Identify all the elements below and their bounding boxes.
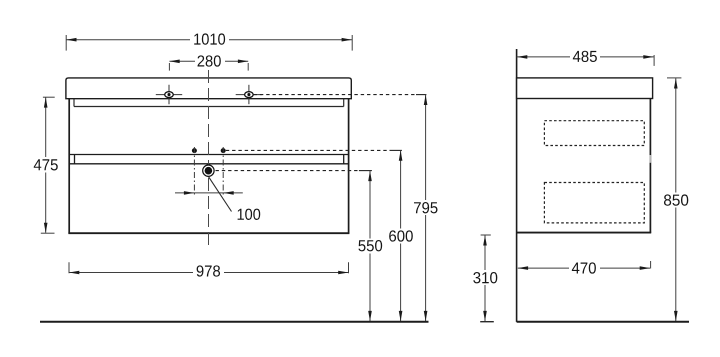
dimension 978 label <box>193 263 224 279</box>
dimension 310 label <box>472 270 500 285</box>
cabinet side view bottom edge <box>517 232 652 234</box>
dimension 850 line <box>667 78 681 321</box>
dash-dot line through right dot <box>222 147 224 197</box>
cabinet body front view right edge <box>348 99 350 234</box>
dimension 100 label <box>238 209 261 220</box>
dimension 280 line <box>169 61 248 70</box>
drain hole <box>203 165 214 176</box>
dashed projection line faucet level <box>254 94 416 96</box>
vertical centerline <box>208 70 210 247</box>
dimension 470 label <box>569 259 600 276</box>
dimension 795 label <box>412 200 440 215</box>
dimension 485 label <box>570 48 600 64</box>
dimension 470 line <box>518 261 651 269</box>
dimension 850 arrowheads <box>674 78 678 88</box>
dimension 600 label <box>387 229 415 244</box>
dashed drawer box upper <box>544 121 644 146</box>
wall line side view <box>516 49 518 322</box>
solid stub to 795 dimension <box>416 94 426 96</box>
dimension 475 arrowheads <box>44 97 48 107</box>
dimension 280 label <box>195 53 225 69</box>
dimension 550 line <box>369 171 371 321</box>
dimension 850 label <box>662 193 691 208</box>
dimension 470 arrowheads <box>518 266 528 270</box>
dimension 550 arrowheads <box>368 171 372 181</box>
dimension 978 arrowheads <box>69 271 79 275</box>
cabinet side view right edge <box>649 99 651 233</box>
divider notch on side edge <box>649 155 651 163</box>
mounting dot right <box>221 148 226 153</box>
faucet hole right <box>236 85 262 104</box>
floor tick at 310 dimension <box>480 321 494 323</box>
dimension 280 arrowheads <box>169 60 179 64</box>
dimension 475 label <box>32 157 60 173</box>
dashed projection line divider level <box>226 149 390 151</box>
solid stub to 600 dimension <box>390 149 402 151</box>
dimension 100 line <box>175 192 243 194</box>
floor line right segment <box>517 321 689 323</box>
dimension 1010 line <box>66 35 352 51</box>
leader line to drain <box>209 177 232 212</box>
dash-dot line through left dot <box>193 147 195 197</box>
dimension 600 arrowheads <box>399 150 403 160</box>
dimension 475 line <box>41 97 55 233</box>
dimension 978 line <box>69 262 349 273</box>
cabinet body front view bottom edge <box>68 232 349 234</box>
dimension 310 line <box>481 235 491 321</box>
cabinet top rail under countertop <box>74 99 344 107</box>
dimension 100 arrowheads <box>184 191 194 195</box>
drawer divider band <box>70 155 349 164</box>
dimension 795 line <box>425 95 427 322</box>
faucet hole left <box>156 85 182 104</box>
dimension 550 label <box>357 239 385 254</box>
dimension 485 line <box>517 55 655 66</box>
floor line left segment <box>40 321 429 323</box>
dimension 795 arrowheads <box>424 95 428 105</box>
dashed projection line drain level <box>216 170 359 172</box>
dimension 310 arrowheads <box>483 235 487 245</box>
dashed drawer box lower <box>544 183 644 223</box>
countertop side view <box>517 78 653 99</box>
dimension 485 arrowheads <box>517 55 527 59</box>
dimension 1010 label <box>190 31 229 48</box>
countertop front view <box>66 78 351 99</box>
solid stub to 550 dimension <box>359 170 372 172</box>
cabinet body front view left edge <box>68 99 70 234</box>
mounting dot left <box>192 148 197 153</box>
dimension 600 line <box>400 150 402 321</box>
dimension 1010 arrowheads <box>66 38 76 42</box>
